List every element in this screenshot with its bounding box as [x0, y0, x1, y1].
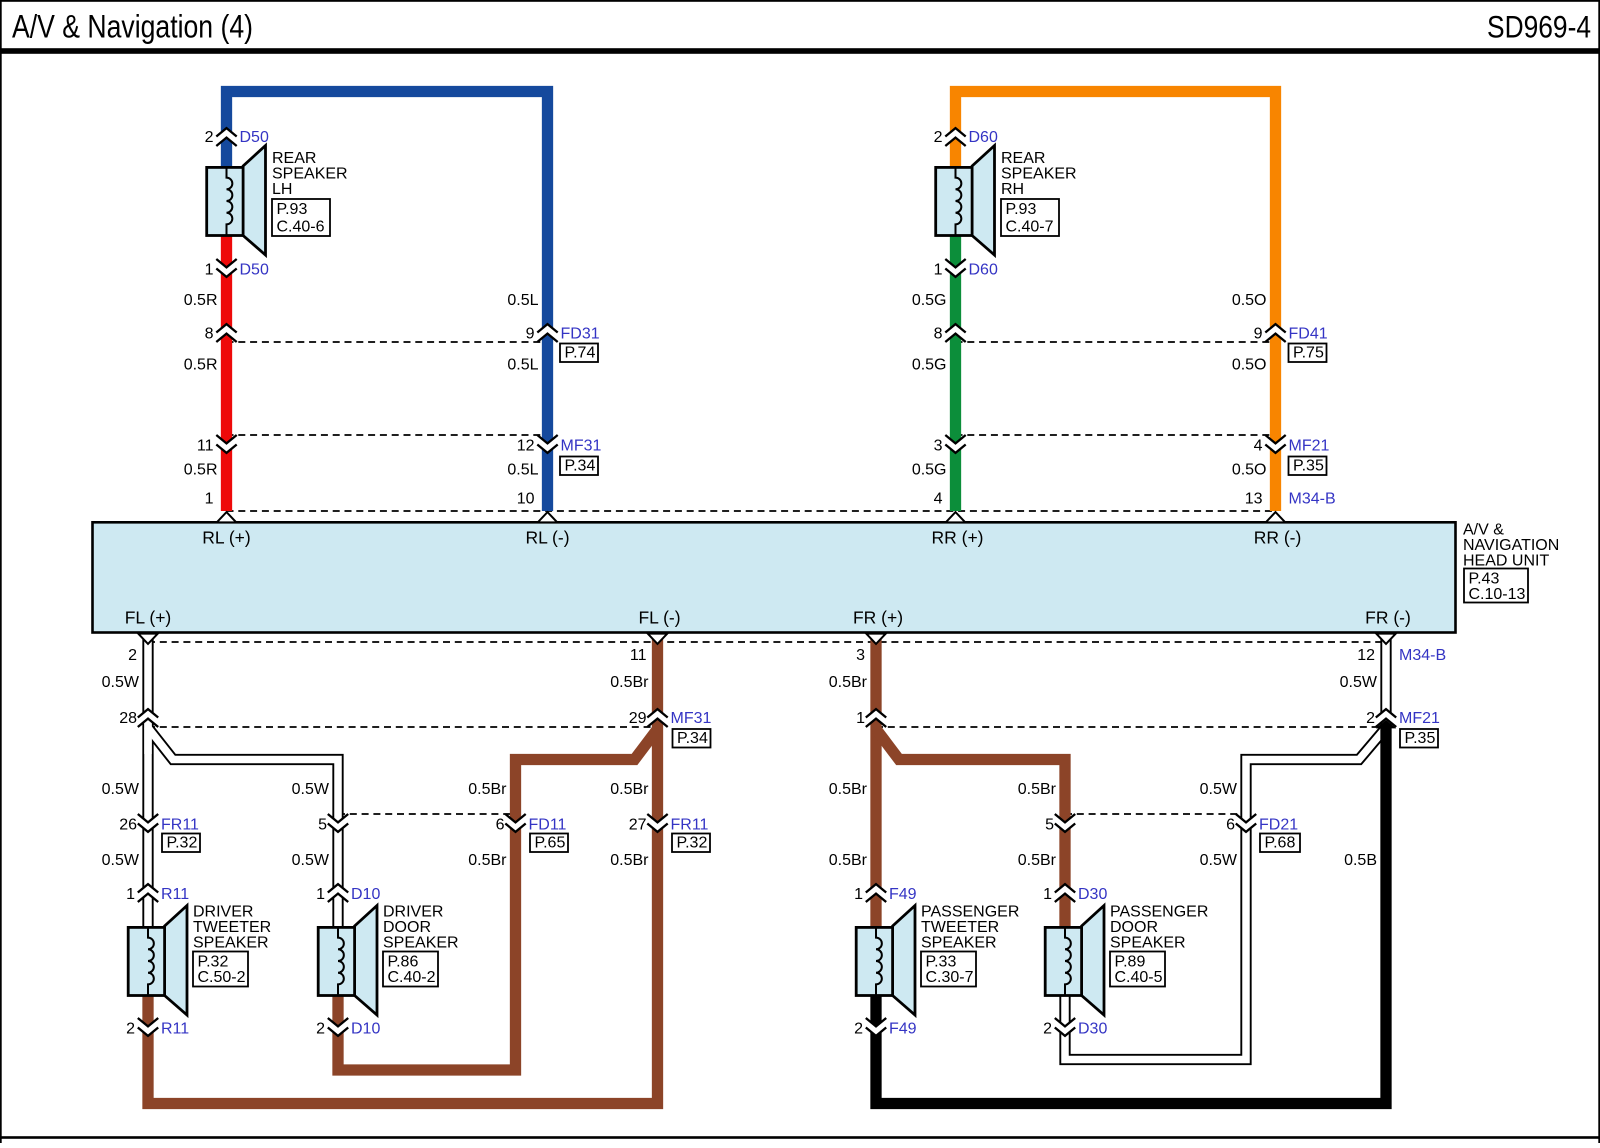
svg-text:0.5L: 0.5L — [507, 462, 538, 479]
svg-text:P.65: P.65 — [535, 835, 566, 852]
svg-text:11: 11 — [630, 647, 647, 664]
svg-text:RH: RH — [1001, 181, 1024, 198]
svg-text:SPEAKER: SPEAKER — [921, 934, 997, 951]
svg-text:6: 6 — [496, 817, 505, 834]
svg-text:9: 9 — [526, 326, 535, 343]
svg-text:FD31: FD31 — [561, 326, 600, 343]
svg-text:27: 27 — [629, 817, 647, 834]
svg-text:0.5L: 0.5L — [507, 292, 538, 309]
svg-text:0.5W: 0.5W — [102, 781, 140, 798]
svg-text:FL (+): FL (+) — [125, 608, 172, 628]
svg-text:M34-B: M34-B — [1289, 491, 1336, 508]
svg-text:MF31: MF31 — [561, 438, 602, 455]
svg-text:FR11: FR11 — [161, 817, 199, 834]
svg-text:MF21: MF21 — [1399, 710, 1440, 727]
svg-text:P.93: P.93 — [277, 201, 308, 218]
svg-text:P.74: P.74 — [565, 345, 596, 362]
svg-text:D60: D60 — [969, 129, 998, 146]
svg-text:LH: LH — [272, 181, 292, 198]
svg-text:M34-B: M34-B — [1399, 647, 1446, 664]
svg-text:P.34: P.34 — [565, 458, 596, 475]
svg-text:C.40-5: C.40-5 — [1115, 969, 1163, 986]
svg-text:0.5W: 0.5W — [292, 852, 330, 869]
svg-text:0.5Br: 0.5Br — [829, 781, 868, 798]
svg-text:0.5L: 0.5L — [507, 357, 538, 374]
svg-text:1: 1 — [126, 886, 135, 903]
svg-text:P.35: P.35 — [1405, 730, 1436, 747]
svg-text:A/V & Navigation (4): A/V & Navigation (4) — [12, 9, 253, 45]
svg-text:0.5W: 0.5W — [102, 852, 140, 869]
svg-text:5: 5 — [318, 817, 327, 834]
svg-text:3: 3 — [856, 647, 865, 664]
svg-text:P.32: P.32 — [198, 954, 229, 971]
svg-text:R11: R11 — [161, 1021, 189, 1038]
svg-text:P.75: P.75 — [1293, 345, 1324, 362]
svg-text:P.43: P.43 — [1469, 571, 1500, 588]
svg-text:FR11: FR11 — [671, 817, 709, 834]
svg-text:0.5O: 0.5O — [1232, 292, 1267, 309]
svg-text:0.5O: 0.5O — [1232, 462, 1267, 479]
svg-text:8: 8 — [205, 326, 214, 343]
svg-text:FR (+): FR (+) — [853, 608, 903, 628]
svg-text:1: 1 — [1043, 886, 1052, 903]
svg-text:0.5Br: 0.5Br — [468, 852, 507, 869]
svg-text:D60: D60 — [969, 262, 998, 279]
svg-text:9: 9 — [1254, 326, 1263, 343]
svg-text:C.30-7: C.30-7 — [926, 969, 974, 986]
svg-text:MF21: MF21 — [1289, 438, 1330, 455]
svg-text:0.5Br: 0.5Br — [1018, 781, 1057, 798]
svg-text:13: 13 — [1245, 491, 1263, 508]
svg-text:P.93: P.93 — [1006, 201, 1037, 218]
svg-text:F49: F49 — [889, 886, 917, 903]
svg-text:0.5Br: 0.5Br — [829, 674, 868, 691]
svg-text:RL (+): RL (+) — [202, 528, 250, 548]
svg-text:FL (-): FL (-) — [638, 608, 680, 628]
svg-text:0.5W: 0.5W — [1200, 781, 1238, 798]
svg-text:1: 1 — [205, 262, 214, 279]
svg-text:D10: D10 — [351, 1021, 380, 1038]
svg-text:0.5G: 0.5G — [912, 292, 947, 309]
svg-text:1: 1 — [854, 886, 863, 903]
svg-text:0.5Br: 0.5Br — [468, 781, 507, 798]
svg-text:C.10-13: C.10-13 — [1469, 586, 1526, 603]
svg-text:RL (-): RL (-) — [525, 528, 569, 548]
svg-text:4: 4 — [934, 491, 943, 508]
svg-text:C.40-7: C.40-7 — [1006, 219, 1054, 236]
svg-text:D50: D50 — [240, 262, 269, 279]
svg-text:P.34: P.34 — [677, 730, 708, 747]
svg-text:P.35: P.35 — [1293, 458, 1324, 475]
svg-text:SPEAKER: SPEAKER — [1110, 934, 1186, 951]
svg-text:4: 4 — [1254, 438, 1263, 455]
svg-text:C.40-6: C.40-6 — [277, 219, 325, 236]
svg-text:F49: F49 — [889, 1021, 917, 1038]
svg-text:D50: D50 — [240, 129, 269, 146]
svg-text:5: 5 — [1045, 817, 1054, 834]
svg-text:0.5R: 0.5R — [184, 462, 218, 479]
svg-text:SPEAKER: SPEAKER — [193, 934, 269, 951]
svg-text:0.5B: 0.5B — [1344, 852, 1377, 869]
svg-text:0.5Br: 0.5Br — [610, 852, 649, 869]
svg-text:FD41: FD41 — [1289, 326, 1328, 343]
svg-text:2: 2 — [316, 1021, 325, 1038]
svg-text:SD969-4: SD969-4 — [1487, 9, 1591, 45]
svg-text:RR (-): RR (-) — [1254, 528, 1302, 548]
svg-text:FR (-): FR (-) — [1365, 608, 1411, 628]
svg-text:1: 1 — [205, 491, 214, 508]
svg-text:0.5W: 0.5W — [292, 781, 330, 798]
svg-text:0.5Br: 0.5Br — [610, 781, 649, 798]
svg-text:R11: R11 — [161, 886, 189, 903]
svg-text:D30: D30 — [1078, 1021, 1107, 1038]
svg-text:2: 2 — [934, 129, 943, 146]
svg-text:FD11: FD11 — [529, 817, 567, 834]
svg-text:0.5O: 0.5O — [1232, 357, 1267, 374]
svg-text:MF31: MF31 — [671, 710, 712, 727]
svg-text:1: 1 — [934, 262, 943, 279]
svg-text:8: 8 — [934, 326, 943, 343]
svg-text:2: 2 — [854, 1021, 863, 1038]
svg-text:0.5R: 0.5R — [184, 292, 218, 309]
svg-text:0.5Br: 0.5Br — [1018, 852, 1057, 869]
svg-text:1: 1 — [316, 886, 325, 903]
svg-text:28: 28 — [119, 710, 137, 727]
svg-text:P.86: P.86 — [388, 954, 419, 971]
svg-text:HEAD UNIT: HEAD UNIT — [1463, 552, 1549, 569]
svg-text:11: 11 — [197, 438, 214, 455]
svg-text:0.5Br: 0.5Br — [610, 674, 649, 691]
svg-text:12: 12 — [1357, 647, 1375, 664]
svg-text:0.5G: 0.5G — [912, 357, 947, 374]
svg-text:C.50-2: C.50-2 — [198, 969, 246, 986]
svg-text:RR (+): RR (+) — [931, 528, 983, 548]
svg-text:FD21: FD21 — [1259, 817, 1298, 834]
svg-text:3: 3 — [934, 438, 943, 455]
svg-text:P.32: P.32 — [167, 835, 198, 852]
svg-text:P.68: P.68 — [1265, 835, 1296, 852]
svg-text:26: 26 — [119, 817, 137, 834]
svg-text:10: 10 — [517, 491, 535, 508]
svg-text:P.89: P.89 — [1115, 954, 1146, 971]
svg-text:2: 2 — [128, 647, 137, 664]
svg-text:SPEAKER: SPEAKER — [383, 934, 459, 951]
svg-text:2: 2 — [126, 1021, 135, 1038]
svg-text:0.5Br: 0.5Br — [829, 852, 868, 869]
svg-text:P.33: P.33 — [926, 954, 957, 971]
svg-text:2: 2 — [1366, 710, 1375, 727]
svg-text:D30: D30 — [1078, 886, 1107, 903]
svg-text:0.5R: 0.5R — [184, 357, 218, 374]
svg-text:6: 6 — [1226, 817, 1235, 834]
svg-text:0.5W: 0.5W — [1200, 852, 1238, 869]
svg-text:P.32: P.32 — [677, 835, 708, 852]
svg-text:1: 1 — [856, 710, 865, 727]
svg-text:C.40-2: C.40-2 — [388, 969, 436, 986]
svg-text:0.5G: 0.5G — [912, 462, 947, 479]
svg-text:2: 2 — [205, 129, 214, 146]
svg-text:0.5W: 0.5W — [102, 674, 140, 691]
svg-text:29: 29 — [629, 710, 647, 727]
svg-text:12: 12 — [517, 438, 535, 455]
svg-text:D10: D10 — [351, 886, 380, 903]
svg-text:2: 2 — [1043, 1021, 1052, 1038]
svg-text:0.5W: 0.5W — [1340, 674, 1378, 691]
